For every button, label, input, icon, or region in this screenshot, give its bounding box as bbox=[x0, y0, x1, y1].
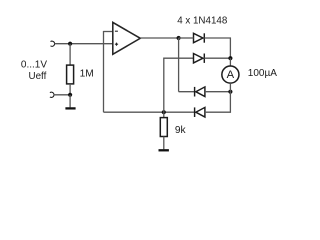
diode D4 bbox=[195, 107, 205, 117]
wire D3 right bbox=[205, 91, 231, 93]
resistor 1M bbox=[67, 65, 74, 84]
wire to D3 left bbox=[179, 91, 195, 93]
wire output vertical to D3 bbox=[178, 38, 180, 92]
wire D1 anode bbox=[179, 37, 194, 39]
diode D1 bbox=[194, 33, 205, 42]
node junction output bbox=[177, 36, 181, 40]
svg-text:4 x 1N4148: 4 x 1N4148 bbox=[177, 15, 228, 26]
wire meter bottom lead bbox=[229, 83, 231, 92]
input terminal top bbox=[51, 41, 55, 46]
wire 1M bottom lead bbox=[69, 84, 71, 95]
op-amp plus sign bbox=[115, 43, 118, 46]
svg-text:100µA: 100µA bbox=[248, 68, 277, 79]
svg-text:0...1V: 0...1V bbox=[21, 60, 47, 71]
node junction input top bbox=[68, 42, 72, 46]
svg-text:A: A bbox=[227, 69, 235, 81]
wire feedback vertical bbox=[103, 31, 105, 112]
wire D4 right to bus bbox=[205, 92, 231, 113]
op-amp minus sign bbox=[115, 30, 118, 32]
wire input top to op-amp + bbox=[55, 43, 113, 45]
wire 9k bottom lead bbox=[163, 137, 165, 150]
diode D3 bbox=[195, 87, 205, 97]
node junction meter top bbox=[228, 56, 232, 60]
wire input bottom bbox=[54, 94, 70, 96]
node junction meter bottom bbox=[228, 90, 232, 94]
wire op-amp inverting input bbox=[104, 31, 113, 33]
ammeter M1 bbox=[222, 66, 239, 83]
node junction input bottom bbox=[68, 93, 72, 97]
svg-text:1M: 1M bbox=[80, 68, 94, 79]
diode D2 bbox=[194, 54, 205, 63]
wire op-amp output bbox=[140, 37, 178, 39]
node junction 9k top bbox=[162, 110, 166, 114]
svg-text:9k: 9k bbox=[175, 125, 187, 136]
input terminal bottom bbox=[50, 92, 54, 97]
wire ground lead left bbox=[69, 95, 71, 108]
wire D1 cathode to right bus bbox=[204, 38, 230, 58]
op-amp U1 bbox=[113, 22, 141, 54]
resistor 9k bbox=[160, 118, 167, 137]
wire meter top lead bbox=[229, 58, 231, 66]
svg-text:Ueff: Ueff bbox=[29, 71, 47, 82]
ground left bbox=[65, 107, 75, 109]
ground bottom bbox=[159, 149, 169, 151]
wire feedback bottom horizontal bbox=[104, 111, 195, 113]
wire 1M top lead bbox=[69, 44, 71, 65]
wire D2 left + vertical to feedback bbox=[164, 58, 194, 112]
wire D2 cathode bbox=[204, 57, 230, 59]
wire 9k top lead bbox=[163, 112, 165, 117]
